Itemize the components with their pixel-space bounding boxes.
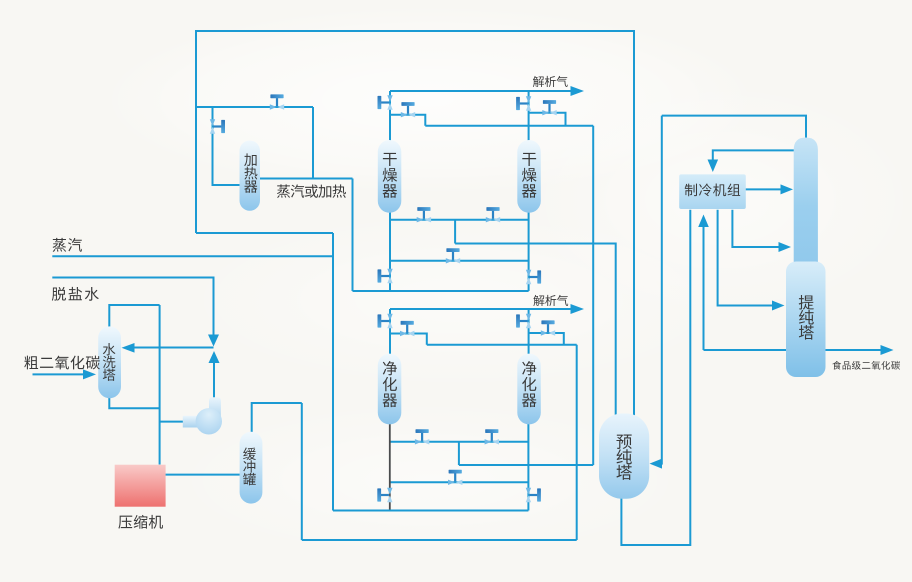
arrow demin water down bbox=[208, 335, 219, 347]
wire mid line bbox=[390, 260, 529, 262]
valve HV1 bbox=[210, 119, 225, 133]
wire steam line bbox=[52, 255, 333, 257]
arrow chiller out 2 bbox=[779, 242, 792, 252]
valve V11 bbox=[448, 470, 462, 485]
wire manifold3 bbox=[427, 344, 577, 346]
unit blower bbox=[183, 397, 222, 434]
wire line2 to pretower bbox=[455, 244, 616, 417]
arrow desorption gas 1 bbox=[571, 86, 585, 96]
label wash tower bbox=[103, 343, 116, 381]
wire product riser bbox=[703, 226, 705, 350]
label crude CO2 bbox=[24, 356, 100, 370]
wire riser x313 bbox=[312, 107, 314, 179]
wire dryer bottom line1 bbox=[390, 219, 529, 221]
label chiller bbox=[685, 184, 740, 197]
wire manifold2 bbox=[353, 290, 529, 292]
wire chiller out 1 bbox=[745, 188, 782, 190]
arrow into chiller bottom bbox=[698, 215, 709, 228]
wire purifier2 top stem bbox=[528, 309, 530, 355]
vessel purification tower body bbox=[786, 262, 826, 378]
label demin water bbox=[52, 287, 99, 301]
arrow food grade CO2 bbox=[881, 345, 894, 355]
label food grade CO2 bbox=[832, 361, 900, 370]
wire dryer1 stem bbox=[389, 91, 391, 291]
wire desorption gas 2 bbox=[390, 308, 572, 310]
vessel dryer 1 bbox=[378, 140, 402, 213]
valve V5 bbox=[486, 207, 500, 222]
valve V4 bbox=[417, 207, 431, 222]
wire wash tower feed bbox=[133, 347, 214, 349]
valve V9 bbox=[415, 429, 429, 444]
wire lineB bbox=[459, 464, 593, 466]
valve HV6 bbox=[378, 314, 393, 328]
wire chiller out 3 bbox=[718, 210, 773, 306]
wire bottom long line bbox=[302, 539, 577, 541]
valve HV9 bbox=[526, 488, 541, 502]
vessel purifier 2 bbox=[517, 354, 541, 425]
wire dryer2 valve line bbox=[529, 113, 566, 126]
valve HV8 bbox=[377, 488, 392, 502]
vessel purification tower neck bbox=[794, 138, 818, 291]
wire chiller top feed bbox=[713, 150, 806, 166]
vessel dryer 2 bbox=[517, 140, 541, 213]
valve V8 bbox=[541, 320, 555, 335]
arrow chiller out 1 bbox=[781, 184, 794, 194]
valve HV7 bbox=[516, 314, 531, 328]
wire heater outlet bbox=[259, 178, 353, 180]
wire blower inlet bbox=[160, 421, 184, 423]
wire purifier2 valve line bbox=[529, 333, 564, 345]
wire main left riser x333 bbox=[332, 233, 334, 511]
label dryer 2 bbox=[522, 153, 537, 198]
wire buffer top bbox=[252, 403, 302, 432]
valve HV2 bbox=[378, 95, 393, 109]
wire purifier2 bottom stem bbox=[527, 424, 529, 511]
wire wash tower bottom bbox=[109, 398, 159, 409]
wire heater inlet drop bbox=[213, 107, 242, 185]
unit chiller box bbox=[679, 174, 746, 209]
unit compressor bbox=[115, 465, 166, 507]
vessel buffer tank bbox=[240, 432, 263, 504]
vessel purifier 1 bbox=[378, 354, 402, 425]
label steam or heating bbox=[277, 184, 346, 197]
valve V3 bbox=[542, 100, 556, 115]
arrow chiller out 3 bbox=[772, 301, 785, 311]
vessel wash tower bbox=[98, 326, 121, 398]
wire blower discharge bbox=[213, 362, 215, 398]
background halo mid bbox=[180, 210, 740, 390]
wire regen manifold bbox=[425, 125, 593, 127]
valve V1 bbox=[270, 94, 284, 109]
wire purifier1 valve line bbox=[390, 334, 427, 345]
arrow desorption gas 2 bbox=[571, 304, 585, 314]
label steam bbox=[53, 238, 82, 252]
wire riser x576 bbox=[576, 345, 578, 540]
arrow into pretower bbox=[650, 459, 663, 469]
valve HV4 bbox=[378, 269, 393, 283]
wire riser x301 bbox=[301, 403, 303, 540]
wire dryer2 stem bbox=[528, 91, 530, 291]
wire purifier lineA bbox=[390, 441, 528, 443]
wire crude CO2 line bbox=[33, 373, 86, 375]
label dryer 1 bbox=[383, 153, 398, 198]
wire chiller out 2 bbox=[732, 210, 780, 247]
valve HV3 bbox=[516, 96, 531, 110]
wire desorption gas 1 bbox=[390, 90, 572, 92]
label buffer tank bbox=[243, 448, 256, 486]
wire right top line bbox=[662, 116, 806, 141]
vessel heater bbox=[240, 141, 261, 211]
wire lineC bbox=[390, 481, 528, 483]
wire product line bbox=[704, 349, 882, 351]
wire heater valve line bbox=[196, 106, 313, 108]
wire lineD bbox=[333, 510, 528, 512]
wire top loop box bbox=[196, 31, 634, 416]
label purifier 1 bbox=[383, 361, 398, 407]
background halo right bbox=[520, 80, 912, 320]
valve V2 bbox=[401, 102, 415, 117]
wire drop x352 bbox=[352, 179, 354, 292]
wire pretower bottom loop bbox=[621, 210, 690, 545]
wire purifier1 top stem bbox=[389, 309, 391, 355]
wire drop x458 bbox=[458, 442, 460, 465]
wire compressor to buffer bbox=[166, 474, 242, 476]
label compressor bbox=[118, 515, 163, 529]
arrow blower up bbox=[209, 351, 220, 363]
label desorption gas 2 bbox=[533, 295, 568, 306]
wire left loop to pretower bbox=[653, 116, 662, 464]
arrow crude CO2 bbox=[83, 369, 96, 379]
background halo top bbox=[100, 5, 760, 195]
valve V7 bbox=[400, 321, 414, 336]
wire wash tower top bbox=[109, 305, 159, 327]
arrow into wash tower bbox=[122, 343, 135, 353]
valve HV5 bbox=[526, 270, 541, 284]
valve V10 bbox=[485, 429, 499, 444]
background halo bottom bbox=[170, 400, 690, 560]
wire drop x455 bbox=[454, 220, 456, 244]
label purification tower bbox=[799, 295, 814, 340]
label purifier 2 bbox=[522, 361, 537, 407]
wire regen riser x593 bbox=[592, 126, 594, 465]
wire demin water line bbox=[52, 278, 213, 337]
wire riser to compressor bbox=[159, 305, 161, 465]
wire dryer1 valve line bbox=[390, 115, 425, 126]
vessel pre-purification tower bbox=[599, 414, 649, 499]
wire heater box bottom bbox=[196, 232, 333, 234]
label heater bbox=[244, 153, 257, 192]
wire purifier1 bottom stem dark bbox=[389, 424, 391, 511]
arrow into chiller top bbox=[708, 160, 719, 173]
label pre-purification tower bbox=[616, 435, 631, 480]
valve V6 bbox=[446, 248, 460, 263]
label desorption gas 1 bbox=[533, 76, 568, 87]
